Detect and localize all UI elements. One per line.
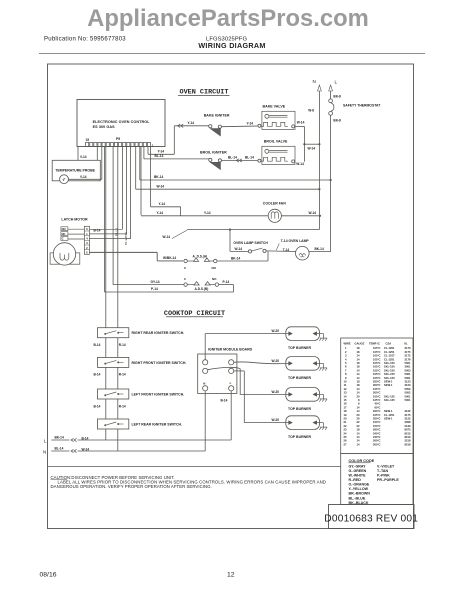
wire strip right 3: [90, 238, 131, 240]
svg-text:CSA: CSA: [386, 341, 392, 345]
svg-text:SEW-1: SEW-1: [384, 409, 393, 413]
top burner B4: [286, 416, 320, 430]
svg-text:CL-1251: CL-1251: [384, 357, 395, 361]
svg-text:W-14: W-14: [309, 211, 317, 215]
svg-text:L: L: [335, 80, 338, 85]
wire strip right 2: [90, 233, 127, 235]
svg-text:Y-14: Y-14: [159, 202, 166, 206]
svg-text:PR.-PURPLE: PR.-PURPLE: [377, 478, 399, 482]
svg-text:W-14: W-14: [82, 447, 90, 451]
wire bundle verticals: [102, 147, 151, 328]
svg-text:3122: 3122: [405, 409, 411, 413]
wire segments between switch S2 and S3: [106, 367, 118, 389]
ADS A switch label: [193, 255, 208, 259]
svg-text:15: 15: [86, 138, 90, 142]
svg-text:20: 20: [344, 417, 347, 421]
oven lamp: [296, 246, 310, 260]
top burner B1: [286, 327, 320, 341]
latch connector strip: [84, 226, 89, 254]
svg-text:O.-ORANGE: O.-ORANGE: [349, 483, 370, 487]
supply L feeder arrow: [329, 80, 338, 99]
svg-text:14: 14: [357, 442, 360, 446]
wire label Y-14 upper: [188, 121, 195, 125]
igniter module board: [198, 354, 237, 394]
wire V-14 probe out: [68, 175, 101, 180]
wire board to burner 2: [234, 362, 286, 364]
wire label W-20 burner 2: [272, 359, 280, 363]
svg-text:200°C: 200°C: [373, 391, 381, 395]
svg-text:5001: 5001: [405, 394, 411, 398]
svg-text:RIGHT REAR IGNITER SWITCH.: RIGHT REAR IGNITER SWITCH.: [132, 331, 185, 335]
svg-text:SXL-150: SXL-150: [384, 368, 395, 372]
svg-text:18: 18: [357, 350, 360, 354]
svg-text:BL.-BLUE: BL.-BLUE: [349, 496, 366, 500]
svg-text:150°C: 150°C: [373, 424, 381, 428]
svg-text:W-20: W-20: [272, 359, 280, 363]
wire label Y-14 fan rail mid: [204, 211, 211, 215]
bake valve label: [263, 105, 286, 109]
svg-text:14: 14: [357, 439, 360, 443]
svg-text:AppliancePartsPros.com: AppliancePartsPros.com: [87, 5, 369, 32]
svg-text:NO: NO: [212, 266, 217, 270]
svg-text:3123: 3123: [405, 380, 411, 384]
connector P5 squares: [86, 142, 151, 146]
wire label B-14 L: [82, 436, 89, 440]
svg-text:ES 300 GAS: ES 300 GAS: [93, 125, 116, 129]
svg-text:14: 14: [357, 409, 360, 413]
ADS A terminal labels C NO: [184, 266, 217, 270]
svg-text:15: 15: [344, 398, 347, 402]
svg-text:5052: 5052: [405, 387, 411, 391]
svg-text:CL-1017: CL-1017: [384, 354, 395, 358]
svg-text:R-14: R-14: [119, 343, 126, 347]
latch wires to strip: [68, 229, 85, 239]
wire label W-14 N: [82, 447, 90, 451]
top burner B1 label: [288, 346, 311, 350]
svg-text:3175: 3175: [405, 413, 411, 417]
top burner B2 label: [288, 376, 311, 380]
svg-text:GY-14: GY-14: [151, 280, 160, 284]
svg-text:SEW-1: SEW-1: [384, 383, 393, 387]
EOC label text: [93, 120, 151, 129]
wire labels B-14 R-14 row 1: [94, 343, 126, 347]
igniter switch S1: [98, 328, 129, 338]
svg-text:B-14: B-14: [94, 229, 101, 233]
svg-text:3218: 3218: [405, 439, 411, 443]
svg-text:P.-PINK: P.-PINK: [377, 474, 390, 478]
latch switch contacts NO NC C: [61, 227, 68, 241]
svg-text:14: 14: [357, 387, 360, 391]
svg-text:20: 20: [357, 413, 360, 417]
chassis ground burner 3: [319, 394, 327, 401]
svg-text:200°C: 200°C: [373, 409, 381, 413]
wire board to burner 4: [234, 371, 286, 423]
wire label Y-14 lower: [158, 149, 165, 153]
svg-text:12: 12: [344, 387, 347, 391]
igniter switch S2: [98, 357, 129, 367]
ADS B switch: [184, 282, 219, 287]
connector chevrons on broil wire: [236, 159, 241, 162]
svg-text:260°C: 260°C: [373, 428, 381, 432]
wire label Y-14 fan rail left: [157, 211, 164, 215]
svg-text:C: C: [62, 237, 64, 241]
wire GY-14 to ADS B: [113, 284, 184, 286]
svg-text:W-20: W-20: [272, 390, 280, 394]
wire label T-14: [283, 248, 290, 252]
oven lamp label with leader: [276, 239, 309, 250]
svg-text:COLOR CODE: COLOR CODE: [349, 459, 375, 463]
wire cooler fan rail: [141, 215, 321, 217]
svg-text:105°C: 105°C: [373, 365, 381, 369]
svg-text:D0010683 REV 001: D0010683 REV 001: [324, 514, 418, 525]
svg-text:TOP BURNER: TOP BURNER: [288, 407, 311, 411]
bake valve: [258, 111, 295, 129]
ADS A switch: [184, 258, 217, 263]
node N cooktop supply: [43, 450, 46, 455]
broil valve: [258, 146, 295, 164]
rotated bundle label P1-L6: [114, 228, 118, 236]
svg-text:25: 25: [344, 435, 347, 439]
color code box: [341, 454, 413, 505]
svg-text:3123: 3123: [405, 383, 411, 387]
svg-text:SEW-1: SEW-1: [384, 380, 393, 384]
revision box D0010683 REV 001: [324, 505, 418, 529]
top burner B4 label: [288, 435, 311, 439]
svg-text:14: 14: [357, 376, 360, 380]
wire L line: [51, 438, 231, 441]
svg-text:W-8: W-8: [308, 108, 314, 112]
svg-text:18: 18: [357, 365, 360, 369]
svg-text:12: 12: [227, 571, 235, 578]
svg-text:105°C: 105°C: [373, 357, 381, 361]
svg-text:14: 14: [357, 368, 360, 372]
wire label V-14: [80, 155, 87, 159]
svg-text:16: 16: [344, 402, 347, 406]
svg-text:5001: 5001: [405, 398, 411, 402]
wire label BK-8 lower: [333, 118, 341, 122]
svg-text:W-20: W-20: [272, 329, 280, 333]
svg-text:IGNITER MODULE BOARD: IGNITER MODULE BOARD: [208, 347, 253, 351]
bottom separator line: [48, 466, 341, 468]
svg-text:L: L: [44, 438, 47, 443]
ADS B switch label: [195, 287, 209, 291]
cooler fan motor: [268, 209, 281, 222]
svg-text:W-14: W-14: [157, 184, 165, 188]
svg-text:3098: 3098: [405, 420, 411, 424]
svg-text:V-14: V-14: [80, 175, 87, 179]
wire rail to lamp area: [187, 216, 320, 231]
svg-text:A. D.S.(A): A. D.S.(A): [193, 255, 208, 259]
wire label W-14 broil: [296, 162, 304, 166]
svg-text:P-14: P-14: [223, 280, 230, 284]
svg-text:14: 14: [357, 372, 360, 376]
svg-text:105°C: 105°C: [373, 376, 381, 380]
svg-text:B-14: B-14: [82, 436, 89, 440]
svg-text:14: 14: [357, 431, 360, 435]
wire label W-14 mid: [308, 147, 316, 151]
svg-text:GY.-GRAY: GY.-GRAY: [349, 464, 367, 468]
svg-text:BR.-BROWN: BR.-BROWN: [349, 492, 371, 496]
svg-text:T-14: T-14: [283, 248, 290, 252]
wire label W-14 leader: [163, 230, 187, 239]
top burner B3: [286, 388, 320, 402]
svg-text:T.-TAN: T.-TAN: [377, 469, 389, 473]
igniter switch S3: [98, 389, 129, 399]
svg-text:105°C: 105°C: [373, 354, 381, 358]
wire segments between switch S3 and S4: [106, 399, 118, 419]
svg-text:W-14: W-14: [308, 147, 316, 151]
temperature probe label: [55, 169, 95, 173]
publication number: [44, 37, 126, 43]
svg-text:14: 14: [357, 405, 360, 409]
wire lamp to L: [309, 251, 331, 253]
svg-text:40°C: 40°C: [374, 402, 380, 406]
oven lamp switch: [248, 248, 295, 253]
broil valve label: [264, 140, 288, 144]
svg-text:G.-GREEN: G.-GREEN: [349, 469, 367, 473]
svg-text:ELECTRONIC OVEN CONTROL: ELECTRONIC OVEN CONTROL: [93, 120, 151, 124]
svg-text:N: N: [43, 450, 46, 455]
wire label BK-8 upper: [333, 94, 341, 98]
svg-text:B-14: B-14: [94, 343, 101, 347]
caution note: [51, 475, 327, 489]
title WIRING DIAGRAM: [198, 41, 265, 50]
model number LFGS3025PFG: [206, 37, 247, 43]
svg-text:14: 14: [357, 354, 360, 358]
svg-text:UL: UL: [404, 341, 408, 345]
rotated bundle label P1-W/NO: [124, 232, 128, 246]
svg-text:W.-WHITE: W.-WHITE: [349, 474, 367, 478]
svg-text:R-14: R-14: [119, 404, 126, 408]
svg-text:B-14: B-14: [221, 398, 228, 402]
svg-text:22: 22: [344, 424, 347, 428]
svg-text:W-14: W-14: [296, 162, 304, 166]
igniter switch S3 label: [132, 393, 185, 397]
svg-text:Y-14: Y-14: [188, 121, 195, 125]
top burner B3 label: [288, 407, 311, 411]
wire BK-14 ADS A out: [217, 251, 268, 261]
svg-text:8073: 8073: [405, 428, 411, 432]
watermark logo AppliancePartsPros.com: [87, 5, 369, 32]
svg-text:BL-14: BL-14: [228, 156, 237, 160]
svg-text:BAKE IGNITER: BAKE IGNITER: [204, 113, 230, 117]
svg-text:SXL-150: SXL-150: [384, 365, 395, 369]
svg-text:5052: 5052: [405, 391, 411, 395]
svg-text:240°C: 240°C: [373, 435, 381, 439]
svg-text:WIRE: WIRE: [344, 341, 351, 345]
wire label W-14 bake: [297, 121, 305, 125]
footer date 08/16: [40, 571, 57, 578]
broil igniter: [209, 158, 258, 169]
svg-text:RIGHT FRONT IGNITER SWITCH.: RIGHT FRONT IGNITER SWITCH.: [132, 361, 187, 365]
svg-text:13: 13: [344, 391, 347, 395]
bake igniter: [209, 125, 258, 136]
wire label BK-14 L: [55, 435, 64, 439]
svg-text:3173: 3173: [405, 346, 411, 350]
svg-text:SEW-1: SEW-1: [384, 417, 393, 421]
wire label W-20 burner 4: [272, 418, 280, 422]
svg-text:TOP BURNER: TOP BURNER: [288, 346, 311, 350]
wire label BL-14 right: [245, 156, 254, 160]
svg-text:19: 19: [344, 413, 347, 417]
svg-text:SXL-150: SXL-150: [384, 376, 395, 380]
svg-text:BL-14: BL-14: [155, 154, 164, 158]
svg-text:5139: 5139: [405, 424, 411, 428]
svg-text:Publication No: 5995677803: Publication No: 5995677803: [44, 37, 126, 43]
wire label P-14 right: [223, 280, 230, 284]
supply N feeder arrow: [313, 79, 322, 215]
svg-text:CL-1251: CL-1251: [384, 350, 395, 354]
svg-text:23: 23: [344, 428, 347, 432]
svg-text:105°C: 105°C: [373, 372, 381, 376]
svg-text:SXL-150: SXL-150: [384, 361, 395, 365]
svg-text:3001: 3001: [405, 365, 411, 369]
svg-text:105°C: 105°C: [373, 394, 381, 398]
wire label W-20 burner 3: [272, 390, 280, 394]
svg-text:21: 21: [344, 420, 347, 424]
svg-text:W-14: W-14: [297, 121, 305, 125]
wire W-14 bake valve return: [295, 126, 305, 161]
svg-text:NO: NO: [62, 227, 66, 231]
svg-text:17: 17: [344, 405, 347, 409]
wire label B-14 latch: [94, 229, 101, 233]
svg-text:3176: 3176: [405, 357, 411, 361]
svg-text:LATCH MOTOR: LATCH MOTOR: [61, 218, 88, 222]
wire BL-14 from EOC to broil igniter: [144, 147, 209, 159]
section title OVEN CIRCUIT: [178, 89, 230, 97]
svg-text:T-14 OVEN LAMP: T-14 OVEN LAMP: [281, 239, 310, 243]
wire Y-14 jog rail: [151, 207, 181, 216]
svg-text:SAFETY THERMOSTAT: SAFETY THERMOSTAT: [343, 103, 381, 107]
svg-text:LEFT REAR IGNITER SWITCH.: LEFT REAR IGNITER SWITCH.: [132, 423, 183, 427]
svg-text:105°C: 105°C: [373, 398, 381, 402]
svg-text:8218: 8218: [405, 442, 411, 446]
svg-text:P1-L6: P1-L6: [114, 228, 118, 236]
svg-text:CL-1251: CL-1251: [384, 413, 395, 417]
svg-text:8212: 8212: [405, 431, 411, 435]
svg-text:N: N: [203, 381, 205, 385]
svg-text:200°C: 200°C: [373, 380, 381, 384]
wire label W-8: [308, 108, 314, 112]
temperature probe sensor: [60, 175, 69, 184]
wire P-14 return: [105, 291, 234, 293]
wire switch column to L: [105, 429, 107, 440]
svg-text:BK-14: BK-14: [154, 175, 163, 179]
svg-text:W-20: W-20: [272, 418, 280, 422]
svg-text:TEMP /C: TEMP /C: [369, 341, 380, 345]
svg-text:BK-8: BK-8: [333, 94, 341, 98]
wire to oven lamp switch: [230, 230, 248, 252]
latch motor: [50, 243, 80, 265]
svg-text:60°C: 60°C: [374, 405, 380, 409]
svg-text:26: 26: [344, 439, 347, 443]
svg-text:SXL-125: SXL-125: [384, 394, 395, 398]
svg-text:22: 22: [357, 424, 360, 428]
svg-text:W/BK-14: W/BK-14: [163, 256, 176, 260]
wire label BK-14 rail: [154, 175, 163, 179]
wire label BK-14 lamp right: [315, 247, 324, 251]
svg-text:NC: NC: [62, 232, 66, 236]
svg-text:20: 20: [357, 394, 360, 398]
svg-text:08/16: 08/16: [40, 571, 57, 578]
svg-text:BK-14: BK-14: [55, 435, 64, 439]
svg-text:TOP BURNER: TOP BURNER: [288, 435, 311, 439]
svg-text:Y.-YELLOW: Y.-YELLOW: [349, 487, 369, 491]
wire board L down: [230, 391, 232, 440]
svg-text:V-14: V-14: [80, 155, 87, 159]
wire label BL-14 N: [55, 446, 64, 450]
svg-text:22: 22: [357, 420, 360, 424]
svg-text:Y-14: Y-14: [204, 211, 211, 215]
svg-text:5003: 5003: [405, 368, 411, 372]
svg-text:BK-14: BK-14: [231, 256, 240, 260]
svg-text:B-14: B-14: [94, 373, 101, 377]
svg-text:200°C: 200°C: [373, 442, 381, 446]
svg-text:3172: 3172: [405, 354, 411, 358]
svg-text:3175: 3175: [405, 350, 411, 354]
svg-text:200°C: 200°C: [373, 439, 381, 443]
svg-text:14: 14: [357, 357, 360, 361]
svg-text:LEFT FRONT IGNITER SWITCH.: LEFT FRONT IGNITER SWITCH.: [132, 393, 185, 397]
svg-text:24: 24: [344, 431, 347, 435]
wire segments between switch S1 and S2: [106, 338, 118, 358]
wire label BL-14 mid: [228, 156, 237, 160]
svg-text:Y-14: Y-14: [158, 149, 165, 153]
svg-text:18: 18: [357, 380, 360, 384]
oven lamp switch label: [233, 241, 268, 245]
svg-text:200°C: 200°C: [373, 417, 381, 421]
svg-text:3122: 3122: [405, 417, 411, 421]
svg-text:BK-14: BK-14: [315, 247, 324, 251]
wire N line: [51, 449, 205, 452]
svg-text:TEMPERATURE PROBE: TEMPERATURE PROBE: [55, 169, 95, 173]
svg-text:BROIL VALVE: BROIL VALVE: [264, 140, 288, 144]
svg-text:150°C: 150°C: [373, 420, 381, 424]
wire label W-14 fan: [309, 211, 317, 215]
wire labels B-14 R-14 row 2: [94, 373, 126, 377]
svg-text:WIRING DIAGRAM: WIRING DIAGRAM: [198, 41, 265, 50]
wire label W-14 lamp: [235, 247, 243, 251]
svg-text:GAUGE: GAUGE: [355, 341, 365, 345]
bake igniter label: [204, 113, 230, 117]
svg-text:BK-8: BK-8: [333, 118, 341, 122]
ADS B terminal labels C NO: [184, 277, 217, 281]
svg-text:5001: 5001: [405, 376, 411, 380]
svg-text:18: 18: [357, 361, 360, 365]
svg-text:18: 18: [357, 383, 360, 387]
wire B-14 strip right: [90, 228, 123, 230]
svg-text:P-14: P-14: [151, 287, 158, 291]
temperature probe box: [52, 160, 100, 181]
header rule: [39, 53, 425, 55]
svg-text:P5: P5: [116, 137, 120, 141]
svg-text:R-14: R-14: [119, 373, 126, 377]
wire W-14 rail to N: [136, 188, 321, 190]
wire switch column to N: [117, 429, 119, 451]
svg-text:CL-1251: CL-1251: [384, 346, 395, 350]
wire W/BK-14 latch to ADS A: [90, 252, 184, 261]
wire pin wire to probe: [96, 147, 98, 161]
svg-text:BROIL IGNITER: BROIL IGNITER: [200, 151, 227, 155]
svg-text:A.D.S.(B): A.D.S.(B): [195, 287, 209, 291]
node L cooktop supply: [44, 438, 47, 443]
svg-text:105°C: 105°C: [373, 413, 381, 417]
svg-text:8210: 8210: [405, 435, 411, 439]
svg-text:N: N: [313, 79, 316, 84]
svg-text:5001: 5001: [405, 372, 411, 376]
footer page 12: [227, 571, 235, 578]
wire BK-14 rail to L: [140, 179, 332, 181]
